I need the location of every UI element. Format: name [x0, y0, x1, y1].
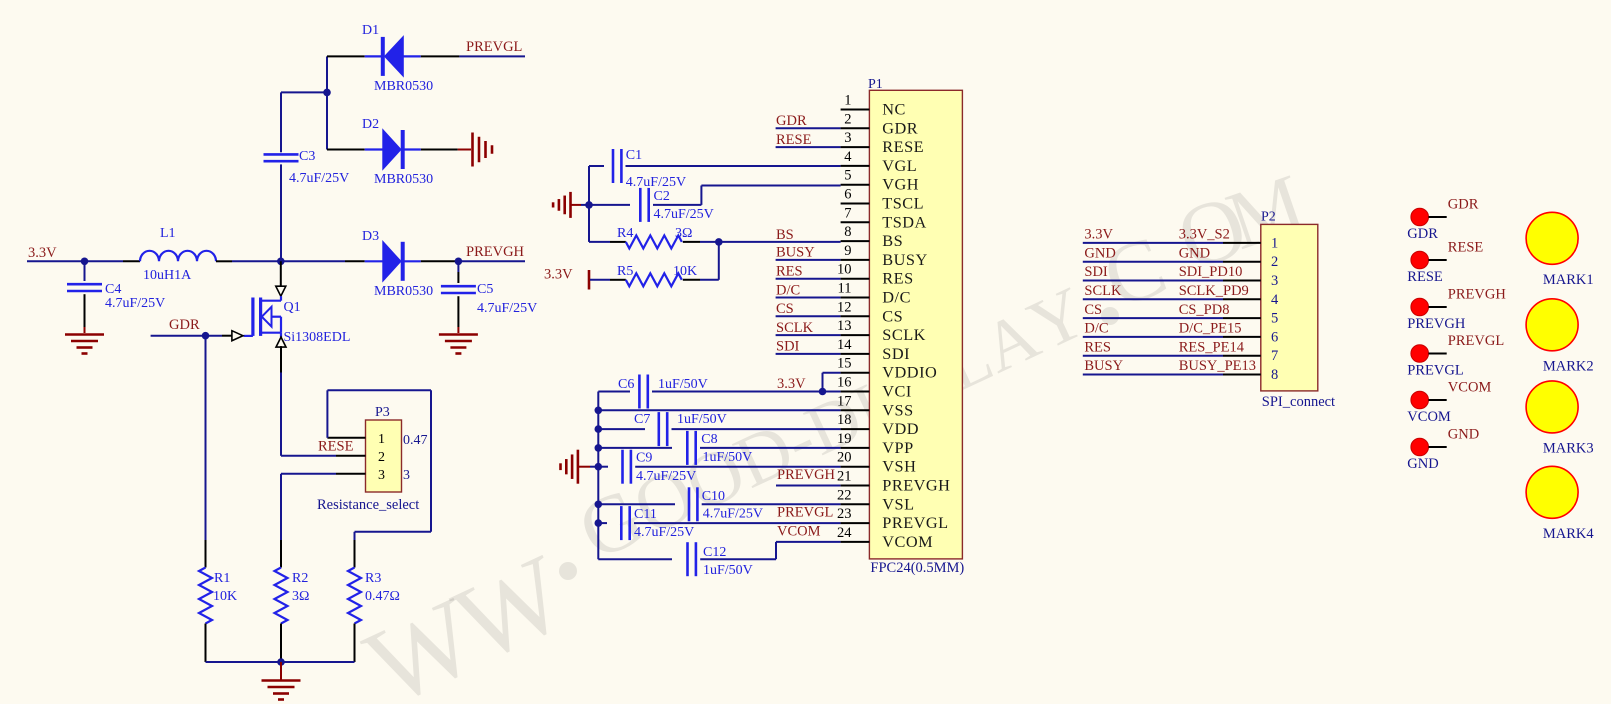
svg-text:4.7uF/25V: 4.7uF/25V [703, 507, 763, 522]
node bus/C8 junction [595, 444, 603, 452]
svg-text:RES_PE14: RES_PE14 [1179, 339, 1245, 355]
wire P3 pin3 to R2 [281, 473, 336, 475]
svg-text:24: 24 [837, 525, 852, 541]
svg-text:C1: C1 [626, 148, 642, 163]
ground at bottom rail [262, 679, 301, 682]
svg-text:MBR0530: MBR0530 [374, 79, 433, 94]
svg-text:CS: CS [882, 306, 903, 325]
node PREVGH/C5 junction [455, 258, 463, 266]
svg-text:SDI_PD10: SDI_PD10 [1179, 264, 1243, 280]
pin 15 of P1 (VDDIO) [841, 372, 870, 374]
svg-text:C8: C8 [701, 432, 717, 447]
pin 10 of P1 (RES) [841, 278, 870, 280]
wire to D2 [327, 149, 365, 151]
svg-text:VCOM: VCOM [777, 523, 821, 539]
svg-text:4.7uF/25V: 4.7uF/25V [634, 525, 694, 540]
svg-text:4.7uF/25V: 4.7uF/25V [289, 171, 349, 186]
ground at D2 [471, 133, 474, 167]
wire net RES to P1 pin10 [776, 278, 841, 280]
node bus/VSS junction [595, 407, 603, 415]
pin arrow Q1 source [276, 337, 286, 347]
connector P1 body [869, 90, 962, 559]
wire test point GDR [1429, 216, 1447, 218]
svg-text:VDD: VDD [882, 419, 919, 438]
pin 18 of P1 (VDD) [841, 428, 870, 430]
svg-text:P3: P3 [375, 405, 390, 420]
svg-text:PREVGL: PREVGL [1448, 333, 1504, 349]
fiducial MARK3 pad [1526, 381, 1578, 433]
wire net SCLK to P1 pin13 [776, 334, 841, 336]
svg-text:7: 7 [1271, 348, 1278, 364]
node bus/C10 junction [595, 501, 603, 509]
svg-text:RESE: RESE [1448, 240, 1484, 256]
svg-text:VCOM: VCOM [882, 532, 933, 551]
pin 6 of P1 (TSCL) [841, 203, 870, 205]
wire net GDR to P1 pin2 [776, 127, 841, 129]
svg-text:SDI: SDI [882, 344, 910, 363]
svg-text:VCI: VCI [882, 382, 912, 401]
svg-text:P1: P1 [868, 77, 883, 92]
svg-text:4.7uF/25V: 4.7uF/25V [105, 296, 165, 311]
pin 9 of P1 (BUSY) [841, 259, 870, 261]
svg-text:PREVGL: PREVGL [466, 39, 522, 55]
wire net RES to P2 pin7 [1083, 355, 1223, 357]
svg-text:BS: BS [776, 227, 794, 243]
svg-text:GDR: GDR [776, 113, 807, 129]
svg-text:1: 1 [1271, 235, 1278, 251]
svg-text:3: 3 [378, 468, 385, 483]
svg-text:GND: GND [1084, 245, 1115, 261]
pin 2 of P3 [336, 455, 366, 457]
svg-text:PREVGH: PREVGH [1448, 287, 1507, 303]
wire GDR node to R1 [205, 336, 207, 540]
svg-text:D/C: D/C [882, 288, 911, 307]
wire Q1 source down [280, 346, 282, 372]
wire PREVGH stub [458, 260, 525, 262]
wire C3 to switch node [280, 164, 282, 261]
pin arrow Q1 gate [232, 331, 243, 341]
svg-text:8: 8 [844, 224, 851, 240]
svg-text:4: 4 [844, 149, 852, 165]
pin 4 of P1 (VGL) [841, 165, 870, 167]
pin 19 of P1 (VPP) [841, 447, 870, 449]
capacitor C2 [589, 204, 630, 206]
svg-text:10uH1A: 10uH1A [143, 268, 192, 283]
power port bar 3.3V [588, 270, 591, 290]
wire test point RESE [1429, 259, 1447, 261]
wire P3 pin1 loop to R3 [326, 390, 328, 438]
test point PREVGL pad [1411, 345, 1429, 363]
wire GDR to gate [151, 335, 206, 337]
svg-text:6: 6 [844, 187, 851, 203]
svg-text:4.7uF/25V: 4.7uF/25V [477, 301, 537, 316]
svg-text:R1: R1 [214, 571, 230, 586]
svg-text:13: 13 [837, 318, 852, 334]
svg-text:VCOM: VCOM [1448, 380, 1492, 396]
svg-text:CS_PD8: CS_PD8 [1179, 302, 1230, 318]
svg-text:2: 2 [378, 450, 385, 465]
svg-text:BUSY: BUSY [1084, 358, 1123, 374]
pin 14 of P1 (SDI) [841, 353, 870, 355]
svg-text:1uF/50V: 1uF/50V [658, 377, 708, 392]
pin 3 of P1 (RESE) [841, 146, 870, 148]
svg-text:BUSY: BUSY [776, 245, 815, 261]
svg-text:10K: 10K [213, 589, 237, 604]
svg-text:PREVGL: PREVGL [777, 505, 833, 521]
fiducial MARK4 pad [1526, 466, 1578, 518]
resistor R3 [348, 568, 361, 624]
capacitor C1 [589, 165, 604, 167]
test point VCOM pad [1411, 391, 1429, 409]
node D1/D2/C3 junction [323, 89, 331, 97]
wire bus to VSS pin17 [598, 409, 840, 411]
wire net BUSY to P2 pin8 [1083, 374, 1223, 376]
svg-text:1: 1 [844, 93, 851, 109]
capacitor C12 [598, 558, 672, 560]
resistor R4 [626, 235, 682, 248]
wire rail to ground [280, 662, 282, 680]
wire test point VCOM [1429, 399, 1447, 401]
svg-text:8: 8 [1271, 367, 1278, 383]
svg-text:SCLK: SCLK [1084, 283, 1122, 299]
node bus/C9 junction [595, 463, 603, 471]
wire R1 to rail [205, 624, 207, 663]
svg-text:0.47: 0.47 [403, 433, 428, 448]
svg-text:GDR: GDR [882, 118, 918, 137]
diode D1 [381, 37, 385, 76]
pin arrow Q1 drain [276, 286, 286, 296]
pin 5 of P1 (VGH) [841, 184, 870, 186]
wire to D1 [327, 55, 365, 57]
svg-text:C9: C9 [636, 451, 652, 466]
capacitor C4 [84, 261, 86, 281]
inductor L1 [140, 251, 216, 262]
pin 3 of P3 [336, 473, 366, 475]
pin 1 of P3 [327, 437, 365, 439]
wire switch node to D3 [281, 260, 345, 262]
svg-text:22: 22 [837, 487, 852, 503]
wire net RESE to P1 pin3 [776, 146, 841, 148]
pin 20 of P1 (VSH) [841, 466, 870, 468]
svg-text:D3: D3 [362, 229, 379, 244]
svg-text:3.3V: 3.3V [544, 267, 573, 283]
wire net CS to P1 pin12 [776, 315, 841, 317]
svg-text:R2: R2 [292, 571, 308, 586]
ground at C1/C2 [569, 192, 572, 218]
svg-text:GDR: GDR [1407, 226, 1438, 242]
svg-text:23: 23 [837, 506, 852, 522]
pin 8 of P1 (BS) [841, 240, 870, 242]
svg-text:20: 20 [837, 450, 852, 466]
svg-text:VSH: VSH [882, 457, 916, 476]
svg-text:C12: C12 [703, 545, 726, 560]
svg-text:15: 15 [837, 356, 852, 372]
svg-text:D/C_PE15: D/C_PE15 [1179, 321, 1242, 337]
svg-text:RES: RES [882, 269, 913, 288]
svg-text:CS: CS [1084, 302, 1102, 318]
svg-text:L1: L1 [160, 226, 176, 241]
capacitor C11 [598, 522, 607, 524]
ground under C5 [439, 333, 478, 336]
fiducial MARK1 pad [1526, 212, 1578, 264]
svg-text:3.3V: 3.3V [28, 245, 57, 261]
svg-text:MBR0530: MBR0530 [374, 172, 433, 187]
wire P3 pin3 lead to R2 [280, 540, 282, 568]
node VCI/VDDIO junction [819, 388, 827, 396]
capacitor C6 [598, 391, 630, 393]
wire R4 to BS node [683, 241, 700, 243]
wire C1/C2/R4 vertical [588, 166, 590, 242]
wire R3 to rail [354, 624, 356, 663]
svg-text:MARK3: MARK3 [1543, 440, 1594, 456]
wire net SDI to P1 pin14 [776, 353, 841, 355]
wire net BUSY to P1 pin9 [776, 259, 841, 261]
svg-text:VPP: VPP [882, 438, 913, 457]
wire VCOM jog [776, 541, 841, 543]
svg-text:PREVGL: PREVGL [1407, 363, 1463, 379]
pin 13 of P1 (SCLK) [841, 334, 870, 336]
svg-text:D2: D2 [362, 117, 379, 132]
svg-text:3.3V: 3.3V [1084, 227, 1113, 243]
svg-text:PREVGL: PREVGL [882, 513, 948, 532]
svg-text:SDI: SDI [1084, 264, 1108, 280]
node rail/ground junction [277, 658, 285, 666]
svg-text:1: 1 [378, 432, 385, 447]
svg-text:C10: C10 [702, 489, 725, 504]
svg-text:SCLK_PD9: SCLK_PD9 [1179, 283, 1249, 299]
connector P2 body [1261, 224, 1318, 391]
svg-text:SCLK: SCLK [882, 325, 926, 344]
wire loop lead to R3 [354, 540, 356, 568]
svg-text:Q1: Q1 [284, 300, 301, 315]
svg-text:18: 18 [837, 412, 852, 428]
svg-text:4.7uF/25V: 4.7uF/25V [654, 207, 714, 222]
wire 3.3V to VCI pin16 [823, 391, 841, 393]
connector P3 body [366, 420, 402, 492]
test point PREVGH pad [1411, 298, 1429, 316]
svg-text:5: 5 [844, 168, 851, 184]
svg-text:10: 10 [837, 262, 852, 278]
pin 16 of P1 (VCI) [841, 391, 870, 393]
diode D3 [383, 241, 401, 281]
svg-text:11: 11 [838, 281, 852, 297]
pin 1 of P1 (NC) [841, 109, 870, 111]
resistor R5 [626, 273, 682, 286]
wire source to P3 pin2 [281, 455, 336, 457]
svg-text:5: 5 [1271, 311, 1278, 327]
svg-text:6: 6 [1271, 329, 1278, 345]
svg-text:19: 19 [837, 431, 852, 447]
node ground/C2 junction [585, 201, 593, 209]
pin 12 of P1 (CS) [841, 315, 870, 317]
svg-text:BS: BS [882, 231, 903, 250]
wire to L1 [85, 260, 124, 262]
wire test point GND [1429, 446, 1447, 448]
svg-text:PREVGH: PREVGH [1407, 316, 1466, 332]
wire net GND to P2 pin2 [1083, 261, 1223, 263]
pin 22 of P1 (VSL) [841, 503, 870, 505]
wire switch node to Q1 drain [280, 261, 282, 287]
transistor Q1 [251, 298, 254, 336]
svg-text:VDDIO: VDDIO [882, 363, 937, 382]
svg-text:C4: C4 [105, 282, 121, 297]
resistor R1 [199, 568, 212, 624]
wire net D/C to P1 pin11 [776, 297, 841, 299]
svg-text:RESE: RESE [318, 439, 354, 455]
svg-text:7: 7 [844, 205, 851, 221]
svg-text:P2: P2 [1261, 210, 1276, 225]
svg-text:1uF/50V: 1uF/50V [703, 563, 753, 578]
svg-text:FPC24(0.5MM): FPC24(0.5MM) [870, 560, 964, 576]
svg-text:Resistance_select: Resistance_select [317, 497, 419, 513]
svg-text:3.3V: 3.3V [777, 376, 806, 392]
svg-text:RESE: RESE [776, 132, 812, 148]
svg-text:C2: C2 [654, 189, 670, 204]
capacitor C7 [598, 428, 645, 430]
wire D2 to ground [421, 149, 458, 151]
fiducial MARK2 pad [1526, 299, 1578, 351]
svg-text:2: 2 [844, 111, 851, 127]
wire net CS to P2 pin5 [1083, 317, 1223, 319]
svg-text:RES: RES [1084, 339, 1111, 355]
capacitor C5 [457, 261, 459, 272]
svg-text:D1: D1 [362, 23, 379, 38]
svg-text:D/C: D/C [1084, 321, 1108, 337]
resistor R2 [275, 568, 288, 624]
decorative watermark (not labelled further) [349, 156, 1316, 704]
wire D1 to PREVGL [421, 55, 460, 57]
wire L1 to switch node [216, 260, 232, 262]
svg-text:RESE: RESE [882, 137, 924, 156]
pin 21 of P1 (PREVGH) [841, 485, 870, 487]
svg-text:16: 16 [837, 375, 852, 391]
svg-text:RESE: RESE [1407, 269, 1443, 285]
svg-text:MBR0530: MBR0530 [374, 284, 433, 299]
svg-text:MARK2: MARK2 [1543, 358, 1594, 374]
svg-text:9: 9 [844, 243, 851, 259]
pin 17 of P1 (VSS) [841, 409, 870, 411]
wire test point PREVGL [1429, 353, 1447, 355]
node bus/C11 junction [595, 519, 603, 527]
svg-text:C7: C7 [634, 412, 650, 427]
wire net 3.3V to P2 pin1 [1083, 242, 1223, 244]
svg-text:VCOM: VCOM [1407, 409, 1451, 425]
node BS junction [715, 238, 723, 246]
svg-text:GND: GND [1179, 245, 1210, 261]
wire junction to C3 [281, 91, 327, 93]
svg-text:12: 12 [837, 299, 852, 315]
svg-text:4.7uF/25V: 4.7uF/25V [626, 175, 686, 190]
svg-text:1uF/50V: 1uF/50V [677, 412, 727, 427]
svg-text:VSS: VSS [882, 400, 913, 419]
svg-text:GDR: GDR [169, 317, 200, 333]
svg-text:3: 3 [403, 468, 410, 483]
svg-text:14: 14 [837, 337, 852, 353]
pin 24 of P1 (VCOM) [841, 541, 870, 543]
svg-text:BUSY_PE13: BUSY_PE13 [1179, 358, 1256, 374]
svg-text:4.7uF/25V: 4.7uF/25V [636, 469, 696, 484]
capacitor C10 [598, 503, 675, 505]
wire R2 to rail [280, 624, 282, 663]
svg-text:PREVGH: PREVGH [777, 467, 836, 483]
svg-text:1uF/50V: 1uF/50V [703, 450, 753, 465]
wire to R4 [589, 241, 610, 243]
svg-text:VGL: VGL [882, 156, 917, 175]
svg-text:0.47Ω: 0.47Ω [365, 589, 400, 604]
wire bottom rail [206, 661, 355, 663]
test point RESE pad [1411, 251, 1429, 269]
svg-text:C11: C11 [634, 507, 657, 522]
wire 3.3V to R5 [590, 279, 610, 281]
capacitor C8 [598, 447, 672, 449]
pin 2 of P1 (GDR) [841, 127, 870, 129]
wire net SDI to P2 pin3 [1083, 280, 1223, 282]
svg-text:R4: R4 [617, 226, 633, 241]
svg-text:NC: NC [882, 100, 906, 119]
node input/C4 junction [81, 258, 89, 266]
svg-text:MARK1: MARK1 [1543, 272, 1594, 288]
wire BS node to pin8 [719, 241, 841, 243]
svg-text:C3: C3 [299, 149, 315, 164]
svg-text:BUSY: BUSY [882, 250, 927, 269]
svg-text:TSCL: TSCL [882, 194, 924, 213]
svg-text:3.3V_S2: 3.3V_S2 [1179, 227, 1230, 243]
svg-text:17: 17 [837, 393, 852, 409]
test point GND pad [1411, 438, 1429, 456]
wire ground bus vertical [597, 392, 599, 560]
svg-text:VSL: VSL [882, 494, 914, 513]
diode D2 [383, 130, 401, 170]
wire PREVGH to pin21 [776, 485, 841, 487]
wire C3 branch vertical [326, 56, 328, 149]
svg-text:TSDA: TSDA [882, 212, 927, 231]
svg-text:3: 3 [844, 130, 851, 146]
svg-text:2: 2 [1271, 254, 1278, 270]
svg-text:SPI_connect: SPI_connect [1262, 394, 1335, 410]
wire R5 to BS node [683, 279, 700, 281]
svg-text:VGH: VGH [882, 175, 919, 194]
svg-text:C5: C5 [477, 282, 493, 297]
node bus/C7 junction [595, 425, 603, 433]
capacitor C9 [598, 466, 608, 468]
test point GDR pad [1411, 208, 1429, 226]
svg-text:D/C: D/C [776, 282, 800, 298]
svg-text:21: 21 [837, 469, 852, 485]
svg-text:PREVGH: PREVGH [882, 476, 950, 495]
svg-text:PREVGH: PREVGH [466, 244, 525, 260]
wire test point PREVGH [1429, 306, 1447, 308]
ground under C4 [65, 333, 104, 336]
wire net D/C to P2 pin6 [1083, 336, 1223, 338]
svg-text:Si1308EDL: Si1308EDL [284, 330, 351, 345]
svg-text:C6: C6 [618, 377, 634, 392]
wire D3 to PREVGH [421, 260, 459, 262]
pin 7 of P1 (TSDA) [841, 221, 870, 223]
ground at decoupling bus [577, 450, 580, 484]
svg-text:3Ω: 3Ω [675, 226, 692, 241]
node switch node [277, 258, 285, 266]
svg-text:3: 3 [1271, 273, 1278, 289]
svg-text:CS: CS [776, 301, 794, 317]
svg-text:3Ω: 3Ω [292, 589, 309, 604]
svg-text:GND: GND [1448, 427, 1479, 443]
capacitor C3 [264, 153, 299, 156]
wire 3.3V input [27, 260, 85, 262]
svg-text:R3: R3 [365, 571, 381, 586]
svg-text:RES: RES [776, 264, 803, 280]
wire to VDDIO pin15 [822, 373, 824, 392]
svg-text:GDR: GDR [1448, 197, 1479, 213]
